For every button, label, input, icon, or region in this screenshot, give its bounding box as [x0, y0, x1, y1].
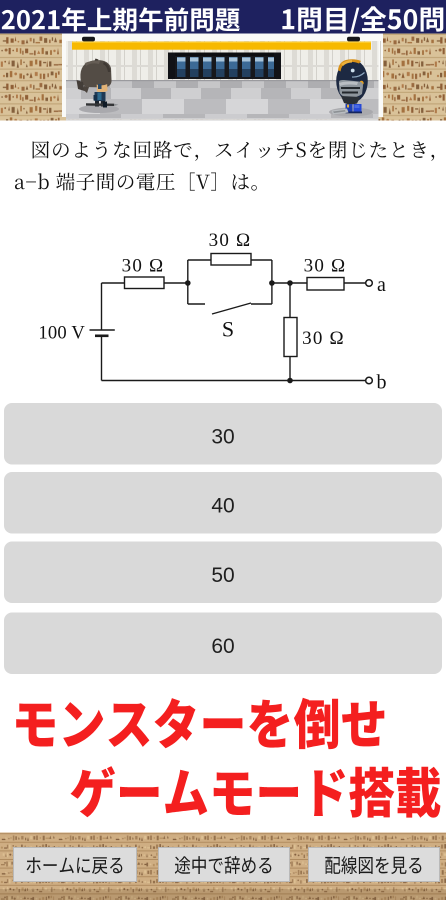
- svg-text:b: b: [377, 372, 387, 394]
- svg-text:30 Ω: 30 Ω: [209, 230, 252, 251]
- svg-text:S: S: [222, 317, 234, 342]
- svg-text:50: 50: [211, 564, 234, 587]
- svg-text:30 Ω: 30 Ω: [122, 256, 165, 277]
- svg-text:60: 60: [211, 635, 234, 658]
- svg-text:a: a: [377, 274, 386, 296]
- svg-text:40: 40: [211, 495, 234, 518]
- svg-text:30: 30: [211, 426, 234, 449]
- svg-text:30 Ω: 30 Ω: [302, 328, 345, 349]
- svg-text:30 Ω: 30 Ω: [304, 256, 347, 277]
- svg-text:100 V: 100 V: [38, 323, 85, 344]
